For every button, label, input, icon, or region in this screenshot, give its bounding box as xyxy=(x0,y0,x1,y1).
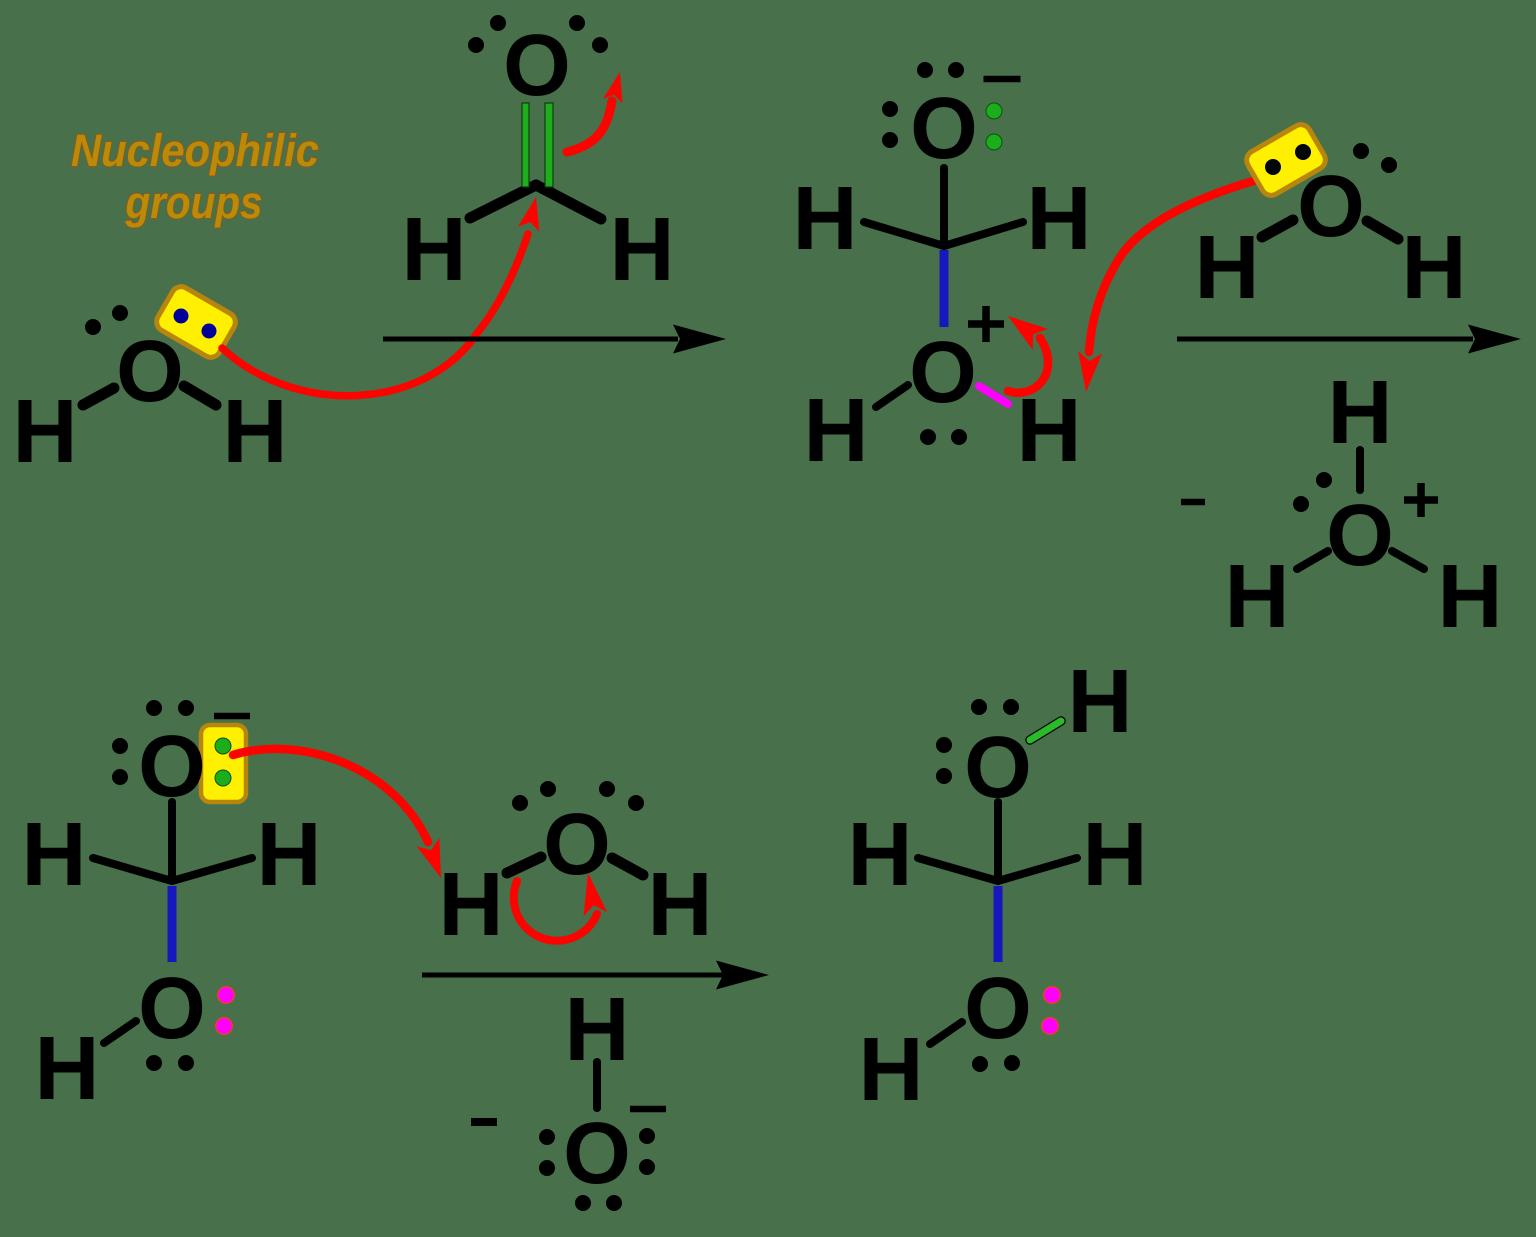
water W1 highlight box (yellow, rotated) xyxy=(153,283,239,361)
svg-text:H: H xyxy=(1068,652,1133,752)
svg-text:H: H xyxy=(1027,169,1092,269)
M4 bond C-H left xyxy=(918,858,998,881)
M4 bond C-H right xyxy=(998,858,1077,881)
water W2 lone pair right xyxy=(1353,143,1397,173)
svg-text:H: H xyxy=(13,382,78,482)
svg-text:H: H xyxy=(1438,547,1503,647)
svg-text:O: O xyxy=(563,1105,631,1202)
svg-text:O: O xyxy=(116,323,184,420)
M4 new O-H bond (green) xyxy=(1030,721,1061,740)
svg-text:H: H xyxy=(1083,805,1148,905)
svg-text:H: H xyxy=(223,382,288,482)
M2 oxonium lone pair bottom xyxy=(920,429,967,445)
M4 bond O-H xyxy=(930,1022,962,1044)
formaldehyde bond C-H left xyxy=(470,185,536,218)
svg-text:H: H xyxy=(1225,547,1290,647)
M2 alkoxide O new lone pair (green dots) xyxy=(986,103,1002,150)
M2 alkoxide O lone pair left xyxy=(882,101,898,148)
OH- bond O-H xyxy=(593,1062,601,1108)
curved arrow: W1 lone pair attacks carbonyl C xyxy=(222,234,528,396)
svg-text:O: O xyxy=(910,80,978,177)
svg-text:O: O xyxy=(964,960,1032,1057)
svg-text:Nucleophilic: Nucleophilic xyxy=(71,125,319,176)
svg-text:H: H xyxy=(257,805,322,905)
M2 oxonium plus charge xyxy=(968,306,1004,342)
M4 C-O bond (blue) xyxy=(994,886,1003,962)
svg-text:H: H xyxy=(1402,218,1467,318)
H3O+ lone pair xyxy=(1293,472,1332,512)
svg-text:H: H xyxy=(22,805,87,905)
svg-text:O: O xyxy=(1326,487,1394,584)
M2 breaking O-H bond (magenta) xyxy=(979,386,1008,404)
H3O+ bond O-H left xyxy=(1297,551,1328,569)
M3 alkoxide O lone pair top xyxy=(146,700,194,716)
curved arrow: pi bond to oxygen xyxy=(567,101,612,152)
M4 hydroxyl lone pair bottom xyxy=(972,1055,1020,1072)
svg-text:O: O xyxy=(138,960,206,1057)
water W2 bond O-H left xyxy=(1262,220,1293,237)
svg-text:H: H xyxy=(610,200,675,300)
water W3 lone pair right xyxy=(599,781,644,811)
M3 C-O bond (blue) xyxy=(168,886,177,962)
H3O+ plus charge xyxy=(1404,483,1438,517)
H3O+ bond O-H right xyxy=(1392,551,1424,569)
svg-text:H: H xyxy=(402,200,467,300)
water W1 highlighted lone pair (blue dots) xyxy=(174,309,217,339)
M3 hydroxyl lone pair bottom xyxy=(146,1055,194,1071)
water W2 highlight box (yellow, rotated) xyxy=(1243,121,1329,199)
curved arrow: W2 lone pair takes proton xyxy=(1089,179,1260,352)
svg-text:O: O xyxy=(503,17,571,114)
reaction arrow 2 xyxy=(1177,337,1473,342)
M3 bond O-C xyxy=(168,802,176,879)
M2 bond C-H left xyxy=(864,222,944,246)
reaction arrow 1 xyxy=(383,337,678,342)
water W3 lone pair left xyxy=(512,781,556,811)
svg-text:O: O xyxy=(1297,158,1365,255)
svg-text:H: H xyxy=(848,805,913,905)
M3 highlight box (yellow, vertical) xyxy=(201,725,246,802)
svg-text:groups: groups xyxy=(125,177,263,228)
M4 top O lone pair left xyxy=(936,737,952,784)
svg-text:H: H xyxy=(859,1020,924,1120)
M2 top alkoxide minus charge xyxy=(984,76,1021,83)
svg-text:H: H xyxy=(804,381,869,481)
label: Nucleophilic groups xyxy=(71,125,319,228)
water W2 highlighted lone pair (dots) xyxy=(1265,144,1311,175)
reaction arrow 3 xyxy=(422,973,725,978)
M2 alkoxide O lone pair top xyxy=(917,62,964,78)
M3 former bond electrons (magenta dots) xyxy=(216,987,235,1035)
M3 bond C-H right xyxy=(172,858,252,881)
H3O+ bond O-H top xyxy=(1356,450,1364,490)
svg-text:H: H xyxy=(35,1019,100,1119)
M4 bond O-C xyxy=(994,802,1002,879)
water W3 bond O-H left xyxy=(507,857,541,873)
M4 former bond electrons (magenta dots) xyxy=(1042,987,1061,1035)
OH- lone pair bottom xyxy=(575,1195,622,1211)
water W2 bond O-H right xyxy=(1367,221,1398,239)
M3 alkoxide minus charge xyxy=(214,713,250,720)
water W3 bond O-H right xyxy=(612,858,643,875)
formaldehyde C=O double bond (green) xyxy=(522,103,553,187)
formaldehyde lone pair right of O xyxy=(569,15,608,53)
svg-text:H: H xyxy=(439,855,504,955)
H3O+ leaving label minus xyxy=(1181,499,1205,506)
M3 bond O-H xyxy=(104,1021,136,1043)
svg-text:H: H xyxy=(793,169,858,269)
curved arrow: W3 O-H electrons to O (circle) xyxy=(514,881,597,941)
M4 top O lone pair top xyxy=(971,699,1019,715)
OH- lone pair left xyxy=(539,1129,555,1176)
svg-text:O: O xyxy=(909,324,977,421)
water W1 lone pair (upper-left dots) xyxy=(85,305,128,335)
svg-text:H: H xyxy=(1195,218,1260,318)
svg-text:H: H xyxy=(648,855,713,955)
water W1 bond O-H right xyxy=(184,386,216,405)
curved arrow: O-H bond electrons to O+ (hook) xyxy=(1008,338,1048,393)
M2 bond O-H left xyxy=(876,385,908,407)
OH- minus charge top right xyxy=(630,1106,666,1113)
curved arrow: M3 lone pair takes proton from W3 xyxy=(233,749,428,842)
formaldehyde bond C-H right xyxy=(536,185,601,219)
M2 bond O-C xyxy=(940,168,948,243)
water W1 bond O-H left xyxy=(83,388,114,405)
M2 new C-O bond (blue) xyxy=(940,250,949,327)
M3 bond C-H left xyxy=(93,858,172,881)
OH- lone pair right xyxy=(639,1128,655,1175)
svg-text:O: O xyxy=(543,796,611,893)
M3 alkoxide O lone pair left xyxy=(112,738,128,785)
formaldehyde lone pair left of O xyxy=(468,15,506,53)
M3 highlighted lone pair (green dots) xyxy=(215,738,231,786)
OH- minus charge left xyxy=(471,1118,497,1126)
M2 bond C-H right xyxy=(944,222,1023,246)
